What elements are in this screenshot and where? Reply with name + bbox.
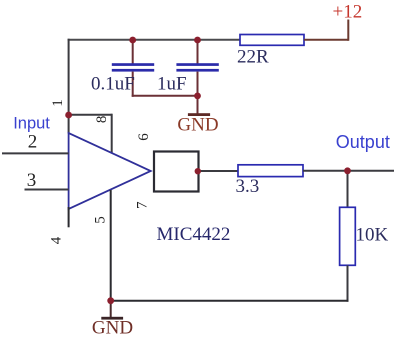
wire stub to top ground: [197, 96, 199, 114]
wire resistor R1 to +12 horizontal: [304, 39, 348, 41]
svg-text:MIC4422: MIC4422: [157, 224, 231, 245]
wire pin 5 vertical to bottom rail: [110, 190, 112, 302]
wire block to resistor R2: [199, 170, 239, 172]
svg-text:1: 1: [50, 99, 66, 107]
junction dot bottom rail: [107, 297, 114, 304]
wire resistor R2 to output: [303, 170, 394, 172]
wire left vertical from rail to op-amp pin 1: [68, 39, 70, 134]
junction dot pin 1 branch: [65, 112, 72, 119]
wire resistor R3 to bottom rail: [347, 265, 349, 301]
op-amp U1 triangle MIC4422: [69, 133, 151, 209]
svg-text:5: 5: [92, 216, 108, 224]
wire pin 8 branch vertical: [111, 114, 113, 153]
svg-text:+12: +12: [333, 2, 363, 23]
wire input pin 3: [25, 189, 69, 191]
junction dot block output: [195, 168, 201, 174]
capacitor C1 plates 0.1uF: [112, 63, 154, 71]
svg-text:4: 4: [49, 236, 65, 244]
svg-text:0.1uF: 0.1uF: [91, 74, 135, 95]
pin 4 stub: [68, 207, 70, 227]
svg-text:7: 7: [135, 201, 151, 209]
junction dot top rail at C1: [129, 37, 136, 44]
wire output node down to resistor R3: [347, 171, 349, 208]
wire pin 8 branch horizontal: [69, 114, 112, 116]
resistor R1 22R body: [240, 35, 304, 46]
wire bottom rail: [111, 300, 349, 302]
junction dot top rail at C2: [194, 37, 201, 44]
capacitor C2 stub top: [197, 40, 199, 64]
wire input pin 2: [2, 152, 69, 154]
svg-text:8: 8: [94, 116, 110, 124]
svg-text:Input: Input: [13, 115, 50, 133]
wire stub to bottom ground: [110, 301, 112, 318]
capacitor C1 stub top: [132, 40, 134, 64]
capacitor C2 plates 1uF: [176, 63, 218, 71]
resistor R2 3.3 body: [238, 165, 303, 177]
capacitor C2 stub bottom: [197, 72, 199, 96]
svg-text:10K: 10K: [356, 225, 389, 246]
svg-text:GND: GND: [92, 318, 133, 336]
wire +12 stub vertical: [347, 20, 349, 41]
output stage block: [154, 152, 199, 192]
svg-text:3: 3: [27, 170, 37, 191]
ground symbol bottom: [101, 317, 123, 320]
svg-text:2: 2: [28, 131, 38, 152]
junction dot output node: [344, 167, 351, 174]
svg-text:GND: GND: [177, 115, 218, 136]
svg-text:Output: Output: [336, 132, 390, 152]
wire capacitor ground link: [132, 95, 198, 97]
capacitor C1 stub bottom: [132, 72, 134, 97]
wire top rail V+: [68, 39, 241, 41]
svg-text:6: 6: [136, 133, 152, 141]
resistor R3 10K body: [340, 207, 356, 265]
svg-text:3.3: 3.3: [236, 176, 260, 197]
ground symbol top: [188, 113, 210, 116]
svg-text:22R: 22R: [237, 47, 269, 68]
svg-text:1uF: 1uF: [157, 74, 187, 95]
junction dot cap ground link: [194, 93, 201, 100]
